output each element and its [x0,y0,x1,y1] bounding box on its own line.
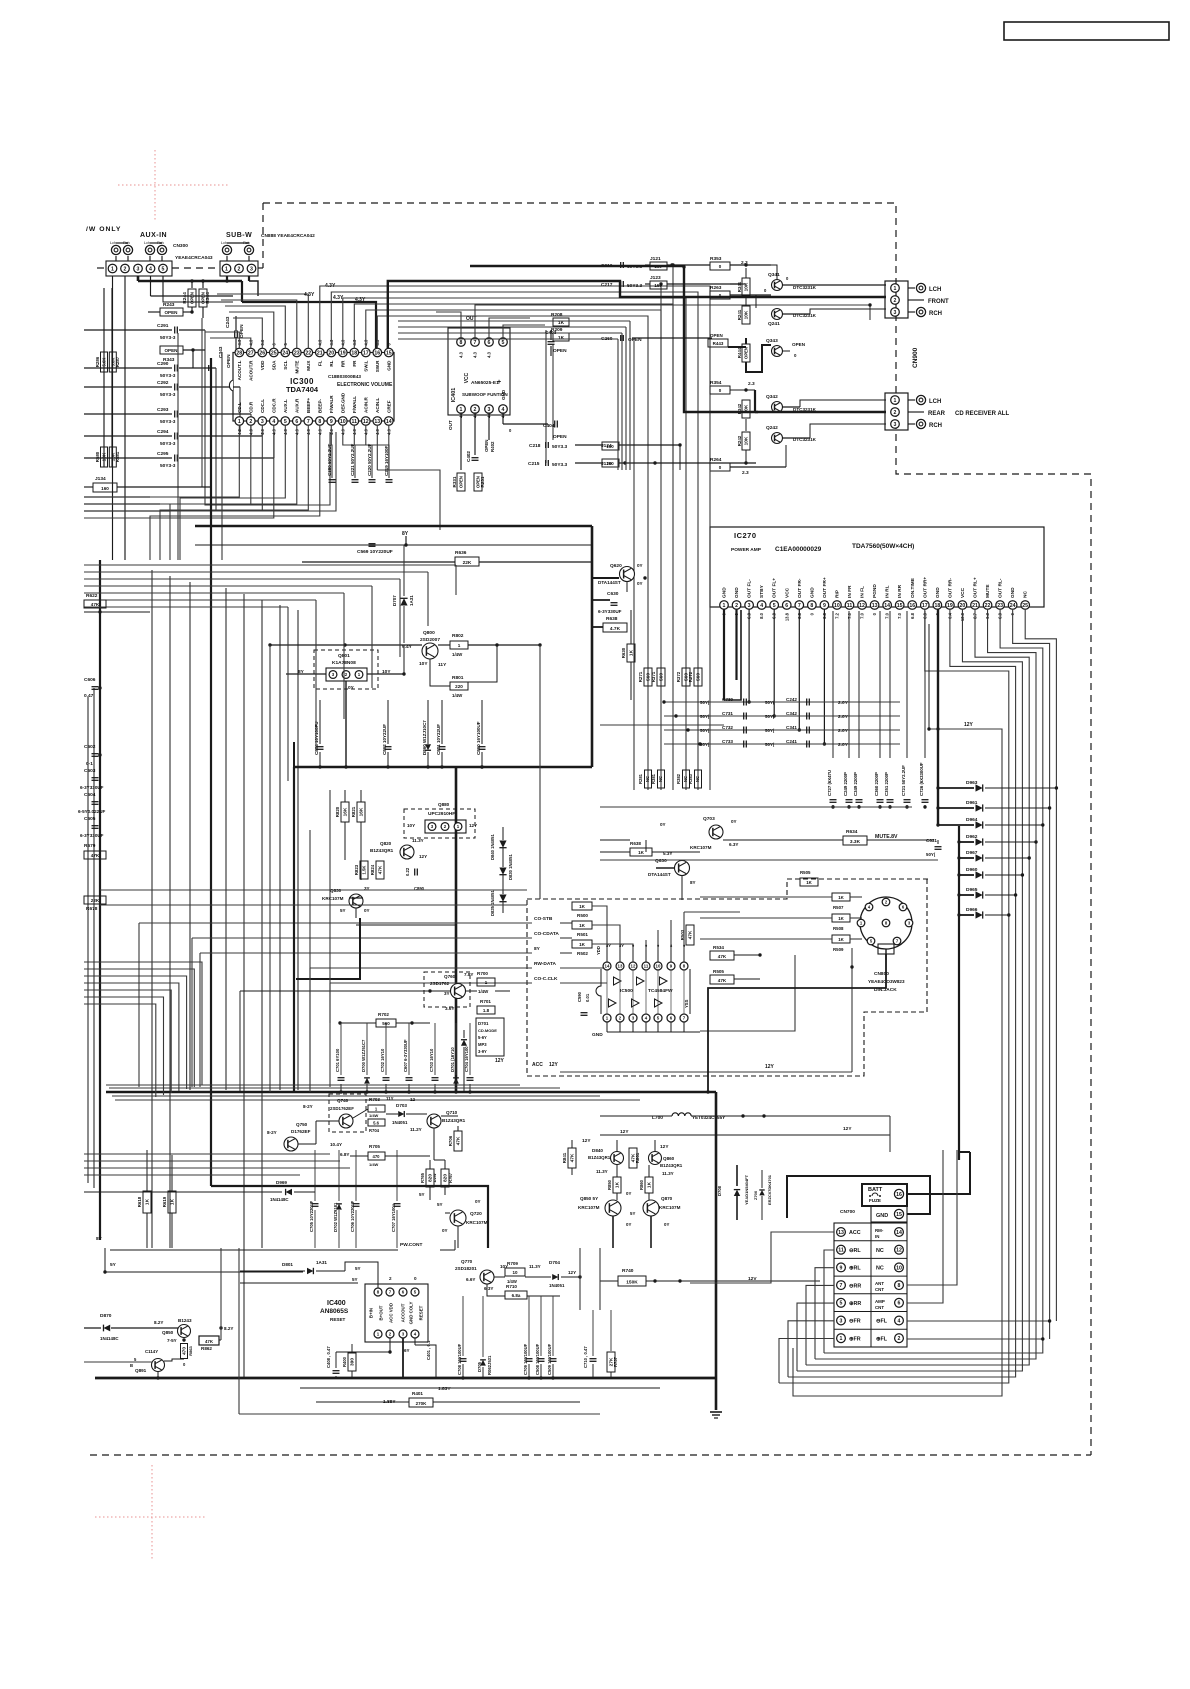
svg-text:12: 12 [896,1248,902,1254]
svg-text:D840 1N4051: D840 1N4051 [490,833,495,860]
svg-text:1K: 1K [615,1181,621,1188]
svg-text:1K: 1K [629,649,635,656]
svg-text:D966: D966 [966,907,978,913]
svg-text:4: 4 [898,1318,901,1324]
svg-text:R701: R701 [480,999,491,1004]
svg-text:ACIN.R: ACIN.R [363,396,368,413]
svg-text:R860: R860 [639,1179,644,1190]
svg-text:C801 10Y22UF: C801 10Y22UF [436,724,441,755]
svg-text:5.3Y: 5.3Y [663,851,672,856]
svg-text:R382: R382 [676,773,681,784]
svg-text:BEEP-: BEEP- [317,398,322,413]
svg-text:1K: 1K [838,937,844,942]
svg-text:C731: C731 [722,711,733,716]
svg-text:AUX.L: AUX.L [283,399,288,413]
svg-text:R231: R231 [480,476,485,487]
svg-text:C342: C342 [786,711,797,716]
svg-text:R343: R343 [163,357,175,363]
svg-text:12V: 12V [748,1276,757,1282]
svg-text:Q850: Q850 [162,1330,174,1335]
svg-text:47K: 47K [688,930,694,939]
svg-text:R634: R634 [846,829,858,835]
svg-text:ACC VDD: ACC VDD [389,1303,394,1323]
svg-text:15: 15 [897,603,903,609]
svg-text:8-2Y: 8-2Y [303,1104,313,1109]
svg-text:C606: C606 [84,677,96,683]
svg-text:R618: R618 [137,1196,142,1207]
svg-text:VDD: VDD [260,360,265,370]
svg-text:REAR: REAR [928,411,946,417]
svg-text:50Y(: 50Y( [700,728,710,733]
svg-text:24: 24 [1010,603,1016,609]
svg-text:4: 4 [760,603,763,609]
svg-text:GND: GND [876,1213,888,1219]
svg-text:OPEN: OPEN [744,347,749,359]
svg-text:FR: FR [352,360,357,367]
svg-text:C590: C590 [577,991,582,1002]
svg-text:25: 25 [271,350,277,356]
svg-text:B: B [130,1363,133,1368]
svg-text:1N4051: 1N4051 [392,1120,408,1125]
svg-text:8.2Y: 8.2Y [154,1320,163,1325]
svg-text:B1243: B1243 [178,1318,192,1323]
svg-text:6.8a: 6.8a [512,1293,521,1298]
svg-text:R638: R638 [630,841,641,846]
svg-text:C702 16Y10: C702 16Y10 [380,1048,385,1072]
svg-text:1: 1 [111,266,114,272]
svg-text:SW.R: SW.R [375,360,380,372]
svg-text:50Y3.3: 50Y3.3 [627,283,643,289]
svg-text:IN: IN [875,1234,879,1239]
svg-text:11: 11 [838,1248,844,1254]
svg-text:12: 12 [363,419,369,425]
svg-text:NC: NC [658,776,663,782]
svg-text:5Y: 5Y [630,1211,635,1216]
svg-text:R271: R271 [638,671,643,682]
svg-text:KRC107M: KRC107M [659,1205,681,1210]
svg-text:22: 22 [305,350,311,356]
svg-text:8-2Y: 8-2Y [267,1130,277,1135]
svg-text:AN8065S: AN8065S [320,1308,349,1315]
svg-text:3.6Y: 3.6Y [445,1006,454,1011]
svg-text:24: 24 [282,350,288,356]
svg-text:47K: 47K [205,1339,214,1344]
svg-text:3.3K: 3.3K [850,839,861,845]
svg-text:C732: C732 [722,725,733,730]
svg-text:3: 3 [137,266,140,272]
svg-text:10Y: 10Y [407,823,415,828]
svg-text:2: 2 [238,266,241,272]
svg-text:R636: R636 [455,550,467,556]
svg-text:Q341: Q341 [768,272,780,278]
svg-text:1K: 1K [170,1198,176,1205]
svg-text:B1Z43QR1: B1Z43QR1 [660,1163,683,1168]
svg-text:50Y3-3: 50Y3-3 [160,419,176,425]
svg-text:D703: D703 [396,1103,407,1108]
svg-text:R841: R841 [562,1152,567,1163]
svg-text:2.3: 2.3 [742,470,749,476]
svg-text:160: 160 [606,444,614,449]
svg-text:4: 4 [502,407,505,413]
svg-text:RCH: RCH [929,423,942,429]
svg-text:12Y: 12Y [582,1138,591,1144]
svg-text:10: 10 [340,419,346,425]
svg-text:C292: C292 [157,380,169,386]
svg-text:R353: R353 [710,256,722,262]
svg-text:R344: R344 [205,292,211,304]
svg-text:VCC: VCC [960,587,966,598]
svg-text:D700 W1ZJ51C7: D700 W1ZJ51C7 [361,1039,366,1072]
svg-text:D960: D960 [966,867,978,873]
svg-text:R534: R534 [713,945,724,950]
svg-text:47K: 47K [378,865,384,874]
svg-text:1K: 1K [838,916,844,921]
svg-text:R862: R862 [201,1346,212,1351]
svg-text:16K: 16K [359,807,365,816]
svg-text:2SD18201: 2SD18201 [455,1266,477,1271]
svg-text:C243: C243 [225,316,231,328]
svg-text:3Y: 3Y [444,991,450,996]
svg-text:47K: 47K [570,1153,576,1162]
svg-text:C707 16Y100u: C707 16Y100u [391,1203,396,1232]
svg-text:OPEN: OPEN [164,348,178,353]
svg-text:0Y: 0Y [364,908,370,913]
svg-text:6-3Y330UF: 6-3Y330UF [598,609,622,614]
svg-text:D702 W1Z9181: D702 W1Z9181 [333,1202,338,1232]
svg-text:CN700: CN700 [840,1209,855,1215]
svg-text:16: 16 [909,603,915,609]
svg-text:C221 50Y2.2UF: C221 50Y2.2UF [350,443,355,476]
svg-text:160: 160 [654,283,662,288]
svg-text:F/WALR: F/WALR [329,395,334,413]
svg-text:28: 28 [236,350,242,356]
svg-text:1K: 1K [579,923,586,928]
svg-text:TC4584FW: TC4584FW [648,988,673,994]
svg-text:12Y: 12Y [964,722,974,728]
svg-text:⊕FL: ⊕FL [876,1336,888,1342]
svg-text:11: 11 [644,964,649,969]
svg-text:C293: C293 [157,407,169,413]
svg-text:GND: GND [722,587,728,598]
svg-text:5Y: 5Y [437,1202,443,1207]
svg-text:1K: 1K [558,335,565,341]
svg-text:CN800: CN800 [874,971,889,977]
svg-text:D964: D964 [966,817,978,823]
svg-text:6: 6 [898,1301,901,1307]
svg-text:GND: GND [809,587,815,598]
svg-text:D965: D965 [966,887,978,893]
svg-text:0.22: 0.22 [405,867,410,876]
svg-text:C733: C733 [722,739,733,744]
svg-text:8.2Y: 8.2Y [224,1326,233,1331]
svg-text:12Y: 12Y [495,1058,505,1064]
svg-text:R702: R702 [378,1012,389,1017]
svg-text:18: 18 [351,350,357,356]
svg-text:R706: R706 [448,1135,453,1146]
svg-text:23: 23 [294,350,300,356]
svg-text:GND: GND [1010,587,1016,598]
svg-text:ACC: ACC [849,1230,861,1236]
svg-text:⊖FR: ⊖FR [849,1319,861,1325]
svg-text:CO-C.CLK: CO-C.CLK [534,976,558,982]
svg-text:3: 3 [250,266,253,272]
svg-text:8Y: 8Y [402,531,409,537]
svg-text:Q343: Q343 [766,338,778,344]
svg-text:21: 21 [317,350,323,356]
svg-text:Q850 5Y: Q850 5Y [580,1196,598,1201]
svg-text:MUX: MUX [306,360,311,371]
svg-text:50Y3-3: 50Y3-3 [160,335,176,341]
svg-text:0Y: 0Y [637,581,643,586]
svg-text:390: 390 [350,1358,356,1366]
svg-text:5: 5 [773,603,776,609]
svg-text:C710 , 0.47: C710 , 0.47 [583,1346,588,1368]
svg-text:SDA: SDA [271,360,276,370]
svg-text:YEAE4CRCA043: YEAE4CRCA043 [175,255,213,261]
svg-text:1/2W: 1/2W [432,1173,437,1183]
svg-text:C242: C242 [786,697,797,702]
svg-text:OPEN: OPEN [553,434,567,440]
svg-text:POWER AMP: POWER AMP [731,547,762,553]
svg-text:MUTE: MUTE [294,361,299,374]
svg-text:DEF.GND: DEF.GND [340,392,345,413]
svg-text:12Y: 12Y [419,854,427,859]
svg-text:9: 9 [823,603,826,609]
svg-text:RCH: RCH [929,311,942,317]
svg-text:470: 470 [182,1347,188,1355]
svg-text:R709: R709 [507,1261,518,1266]
svg-text:PW.CONT: PW.CONT [400,1242,422,1248]
svg-text:21: 21 [972,603,978,609]
svg-text:4.3: 4.3 [459,351,464,357]
svg-text:IC400: IC400 [327,1300,346,1307]
svg-text:D1762EF: D1762EF [291,1129,311,1134]
svg-text:D707: D707 [392,595,397,606]
svg-text:R372: R372 [676,671,681,682]
svg-text:R507: R507 [833,905,844,910]
svg-text:D701 (16Y10: D701 (16Y10 [450,1047,455,1072]
svg-text:FRONT: FRONT [928,299,949,305]
svg-text:MUTE: MUTE [985,584,991,598]
svg-text:50Y3.3: 50Y3.3 [552,462,568,468]
svg-text:C704 16Y100: C704 16Y100 [464,1046,469,1072]
svg-text:1: 1 [460,407,463,413]
svg-text:VCC: VCC [464,372,470,383]
svg-text:6.6Y: 6.6Y [466,1277,475,1282]
svg-text:CD.R: CD.R [248,401,253,413]
svg-text:J121: J121 [650,256,661,262]
svg-text:R062J531: R062J531 [487,1355,492,1375]
svg-text:1N4148C: 1N4148C [270,1197,289,1202]
svg-text:10: 10 [834,603,840,609]
svg-text:IN FR: IN FR [847,585,853,598]
svg-text:OPEN: OPEN [239,324,245,338]
svg-text:0.47: 0.47 [84,693,94,699]
svg-text:50Y(: 50Y( [700,700,710,705]
svg-text:ANT: ANT [875,1281,884,1286]
svg-text:50Y(: 50Y( [765,714,775,719]
svg-text:R502: R502 [577,951,588,956]
svg-text:C630: C630 [607,591,619,597]
svg-text:CD.MODE: CD.MODE [478,1028,497,1033]
svg-text:1: 1 [458,643,461,648]
svg-text:50Y(: 50Y( [765,700,775,705]
svg-text:50Y(: 50Y( [765,742,775,747]
svg-text:10: 10 [512,1270,518,1275]
svg-text:C402: C402 [466,451,471,462]
svg-text:R705: R705 [369,1144,380,1149]
svg-text:50Y3-3: 50Y3-3 [160,463,176,469]
svg-text:12Y: 12Y [843,1126,852,1132]
svg-text:8: 8 [898,1283,901,1289]
svg-text:UPC2910HF: UPC2910HF [428,811,455,817]
svg-text:R286: R286 [95,356,100,367]
svg-text:GND: GND [501,389,506,400]
svg-text:1K: 1K [579,904,586,909]
svg-text:C569 10Y220UF: C569 10Y220UF [357,549,393,555]
svg-text:C721 50Y2.2UF: C721 50Y2.2UF [901,765,906,796]
svg-text:12: 12 [410,1097,416,1102]
svg-text:20: 20 [328,350,334,356]
svg-text:NC: NC [876,1248,884,1254]
svg-text:C1EA00000029: C1EA00000029 [775,546,822,553]
svg-text:2.3: 2.3 [748,381,755,387]
svg-text:2: 2 [894,410,897,416]
svg-text:+: + [497,379,501,386]
svg-text:AUX-IN: AUX-IN [140,232,167,239]
svg-text:6: 6 [295,419,298,425]
svg-text:560: 560 [659,673,665,681]
svg-text:CN888 YEAE4CRCA042: CN888 YEAE4CRCA042 [261,233,315,239]
svg-text:R765: R765 [420,1172,425,1183]
svg-text:C349 2200P: C349 2200P [853,772,858,796]
svg-text:SW.L: SW.L [363,360,368,371]
svg-text:Lch: Lch [221,241,227,245]
svg-text:1/4W: 1/4W [452,652,463,657]
svg-text:4.3: 4.3 [473,351,478,357]
svg-text:NC: NC [645,776,650,782]
svg-text:KRC107M: KRC107M [690,845,712,850]
svg-text:AUX.R: AUX.R [294,398,299,413]
svg-text:RM-: RM- [875,1228,884,1233]
svg-text:R281: R281 [638,773,643,784]
svg-text:Q750: Q750 [296,1122,308,1127]
svg-text:2: 2 [474,407,477,413]
svg-text:R863: R863 [188,1345,193,1355]
svg-text:R208: R208 [551,312,563,318]
svg-text:OPEN: OPEN [459,476,464,488]
svg-text:1: 1 [238,419,241,425]
svg-text:0Y: 0Y [626,1191,631,1196]
svg-text:12Y: 12Y [549,1062,559,1068]
svg-text:C730: C730 [722,697,733,702]
svg-text:4.3Y: 4.3Y [304,292,315,298]
svg-text:7: 7 [474,340,477,346]
svg-text:2: 2 [249,419,252,425]
svg-text:11Y: 11Y [386,1096,394,1101]
svg-text:R703: R703 [369,1097,380,1102]
svg-text:C241: C241 [786,739,797,744]
svg-text:1K: 1K [806,880,812,885]
svg-text:6-3Y330UF: 6-3Y330UF [80,785,104,790]
svg-text:Q770: Q770 [461,1259,473,1264]
svg-text:6: 6 [785,603,788,609]
svg-text:11.3Y: 11.3Y [529,1264,541,1269]
svg-text:VCC: VCC [784,587,790,598]
svg-text:11.3Y: 11.3Y [596,1169,608,1174]
svg-text:1/4W: 1/4W [369,1162,379,1167]
svg-text:R243: R243 [163,302,175,308]
svg-text:R638: R638 [606,616,618,622]
svg-text:TDA7404: TDA7404 [286,385,319,394]
svg-text:Lch: Lch [144,241,150,245]
svg-text:RESET: RESET [419,1305,424,1320]
svg-text:R371: R371 [651,671,656,682]
svg-text:R823: R823 [354,864,359,875]
svg-text:GND: GND [592,1032,603,1038]
svg-text:1N4051: 1N4051 [549,1283,565,1288]
svg-text:8: 8 [460,340,463,346]
svg-text:R820: R820 [335,806,340,817]
svg-text:B1Z43QR1: B1Z43QR1 [370,848,394,853]
svg-text:R737: R737 [613,1356,618,1367]
svg-text:R264: R264 [710,457,722,463]
svg-text:15: 15 [386,350,392,356]
svg-text:AMP: AMP [875,1299,885,1304]
svg-text:C215: C215 [528,461,540,467]
svg-text:Q703: Q703 [703,816,715,822]
svg-text:B1Z43QR1: B1Z43QR1 [588,1155,611,1160]
svg-text:D962: D962 [966,834,978,840]
svg-text:R824: R824 [370,864,375,875]
svg-text:3: 3 [261,419,264,425]
svg-text:2.0Y: 2.0Y [838,700,849,706]
svg-text:50Y(: 50Y( [926,852,936,857]
svg-text:DTC3231K: DTC3231K [793,285,817,290]
svg-text:R580: R580 [95,451,100,462]
svg-text:⊕FR: ⊕FR [849,1336,861,1342]
svg-text:KRC107M: KRC107M [578,1205,600,1210]
svg-text:GND: GND [935,587,941,598]
svg-text:17: 17 [922,603,928,609]
svg-text:9: 9 [330,419,333,425]
svg-text:CO-CDATA: CO-CDATA [534,931,559,937]
svg-text:0Y: 0Y [731,819,737,824]
svg-text:D969: D969 [276,1180,287,1185]
svg-text:11: 11 [352,419,358,425]
svg-text:YDD: YDD [596,946,601,955]
svg-text:50Y3-3: 50Y3-3 [160,373,176,379]
svg-text:R767: R767 [448,1172,453,1183]
svg-text:ACC: ACC [532,1062,543,1068]
svg-text:ACOUT.R: ACOUT.R [248,360,253,381]
svg-text:12Y: 12Y [620,1129,629,1135]
svg-text:RW-DATA: RW-DATA [534,961,557,967]
svg-text:GND COLY: GND COLY [409,1302,414,1325]
svg-text:13: 13 [872,603,878,609]
svg-text:560: 560 [696,673,702,681]
svg-text:C605: C605 [84,816,96,822]
svg-text:10K: 10K [744,436,750,445]
svg-text:RL: RL [329,360,334,366]
svg-text:IC500: IC500 [620,988,633,994]
svg-text:R508: R508 [833,926,844,931]
svg-text:1K: 1K [647,1181,653,1188]
svg-text:1/4W: 1/4W [452,693,463,698]
svg-text:1K: 1K [579,942,586,947]
svg-text:0Y: 0Y [664,1222,669,1227]
svg-text:9: 9 [840,1265,843,1271]
